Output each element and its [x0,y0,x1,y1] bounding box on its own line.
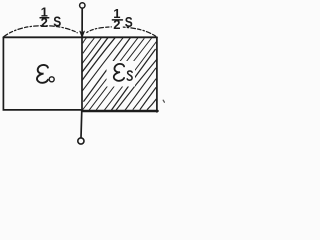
permittivity symbol ε0 (left box) [37,65,48,83]
right capacitor box (solid dielectric) right edge [156,37,158,112]
subscript s of εs [127,71,132,80]
hatching of dielectric εs region [82,37,158,111]
scan speck [163,100,164,102]
dashed leader curve, right half-width [87,27,157,37]
arrowhead at electrode [80,31,85,37]
knockout behind right fraction [112,21,123,30]
top terminal [80,3,85,8]
svg-text:S: S [125,14,133,31]
dashed leader curve, left half-width [4,26,77,37]
label 1/2 s (right) [113,6,133,32]
centre electrode wire [81,8,83,37]
top plate edge [3,36,157,38]
wire [80,110,83,138]
wire [81,37,83,110]
label 1/2 s (left) [41,4,62,30]
bottom terminal [78,138,84,144]
svg-text:S: S [53,13,61,30]
fraction bar (right) [112,19,122,21]
white patch behind εs label [107,61,136,87]
right capacitor box bottom plate [82,110,158,112]
subscript o of ε0 [49,77,54,82]
svg-text:2: 2 [113,17,120,32]
permittivity symbol εs (right box) [114,64,124,81]
fraction bar (left) [40,17,49,19]
left capacitor box (air dielectric) [3,37,82,110]
